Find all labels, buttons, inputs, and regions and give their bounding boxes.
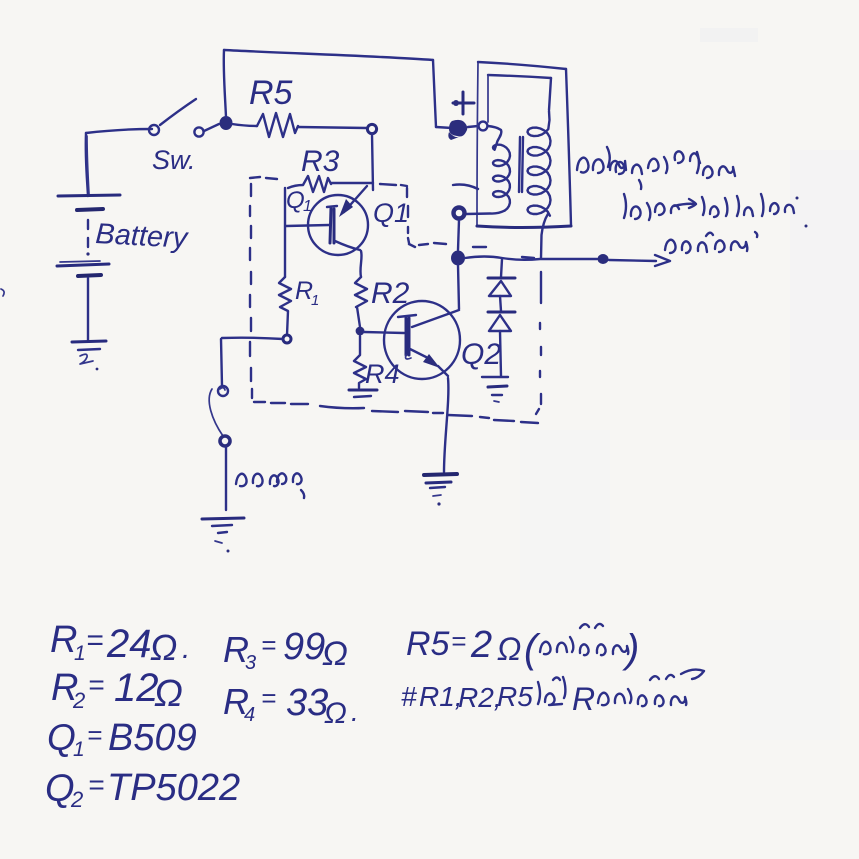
battery internal dashed link [87,220,89,229]
svg-text:TP5022: TP5022 [107,767,240,809]
svg-text:=: = [261,683,276,713]
battery cell plate short 2 [78,275,101,276]
svg-text:Q1: Q1 [373,198,409,228]
switch SW [149,99,233,175]
svg-text:R1,: R1, [419,681,463,712]
svg-text:#: # [401,681,417,712]
battery cell plate long 2 [57,264,109,266]
wire Q2 emitter lead [410,349,426,357]
label thai to spark plug [665,232,757,253]
wire Q2 emitter down [444,378,448,472]
svg-text:2: 2 [72,688,85,713]
wire battery to switch [86,129,152,133]
ground R4 [349,389,377,392]
wire secondary bottom [541,214,548,258]
svg-text:R4: R4 [365,359,400,389]
label value R1 [50,619,190,668]
wire Q1 collector lead [344,186,367,212]
label note R ceramic [401,681,595,717]
svg-text:Q: Q [286,187,305,214]
transistor Q1 base bar [330,208,331,243]
svg-text:3: 3 [245,652,256,674]
diode D2 [488,311,515,314]
svg-text:R3: R3 [301,145,340,178]
points lower contact [220,436,230,446]
svg-text:Ω: Ω [150,627,177,668]
svg-text:Battery: Battery [95,218,190,255]
node Q2 base junction [356,327,365,336]
node output mid [598,254,609,264]
svg-text:R5: R5 [406,625,450,663]
wire D2 down [500,331,501,376]
svg-text:=: = [87,720,102,750]
svg-text:=: = [86,624,104,657]
wire Q2 emitter out [438,366,448,376]
svg-text:12: 12 [114,666,159,710]
resistor R1 [279,277,291,335]
label thai ceramic word2 [598,670,704,707]
svg-text:.: . [351,696,359,727]
svg-text:=: = [261,630,276,660]
svg-text:Sw.: Sw. [152,145,196,175]
svg-text:24: 24 [106,622,152,666]
wire points down [225,447,227,510]
wire battery top lead [86,133,88,196]
svg-text:R2,: R2, [458,682,502,713]
switch contact right [194,127,203,136]
resistor R2 [355,277,367,307]
wire R5-node down to collector junction [372,134,373,190]
wire output to arrow [609,260,656,261]
label thai coil name [577,147,735,189]
transformer core [519,137,520,192]
svg-text:Ω: Ω [324,697,347,730]
resistor R3 [288,176,331,192]
transistor Q1 circle [308,195,368,255]
svg-text:=: = [88,769,104,800]
label thai ceramic in parens [540,624,628,655]
wire plus node to coil [468,126,478,127]
wire R1-node to points [222,338,283,339]
svg-text:=: = [88,669,104,700]
svg-text:R: R [572,681,595,717]
wire R5 to node [298,127,367,128]
arrowhead Q1 collector [339,199,353,217]
wire Q1 emitter down [360,251,361,277]
ground diodes [482,376,508,378]
label value R4 [223,681,359,730]
wire Q1 base lead [286,225,329,226]
wire bypass top [224,50,226,117]
svg-text:1: 1 [303,198,312,215]
switch contact left [149,125,159,135]
label thai pen word [538,677,565,705]
transformer secondary winding [528,111,551,216]
svg-text:Ω: Ω [322,635,348,673]
wire bypass to plus node [436,127,452,128]
dashed box lower [419,243,541,414]
node output junction [451,251,465,266]
svg-text:1: 1 [311,292,319,309]
svg-text:99: 99 [283,626,325,668]
node ring primary-bottom [454,208,465,219]
label value R3 [223,626,348,674]
wire switch to node [204,124,219,131]
diode D1 [488,277,515,280]
node R5 right [367,124,376,133]
label thai high voltage output [624,194,808,228]
wire output line [465,257,597,260]
wire diode stack top [501,259,502,277]
node plus junction [448,120,467,140]
points lever [209,389,223,436]
wire battery bottom lead [87,278,89,340]
transformer T1 ignition coil outer box [477,62,571,228]
svg-text:1: 1 [73,738,85,761]
label value Q1 [47,717,197,761]
label value R2 [51,666,183,715]
wire Q2 collector lead [412,310,459,327]
wire Q1 left vertical [284,188,286,277]
wire output node down to Q2 collector [458,265,459,309]
transformer primary winding [493,136,510,211]
transistor Q2 circle [384,301,460,379]
ground battery [72,341,106,342]
resistor R5 [257,113,298,137]
svg-text:33: 33 [286,682,328,724]
svg-text:Q2: Q2 [461,338,501,371]
battery B1 [57,129,190,370]
svg-text:Q: Q [47,717,76,758]
wire node to Q2 base [364,332,404,333]
transformer inner frame [488,75,551,78]
arrowhead output [655,255,670,266]
switch lever [160,99,196,125]
battery cell plate long 1 [58,195,120,196]
svg-text:R5: R5 [497,681,533,712]
svg-text:B509: B509 [108,717,197,759]
label thai points [236,473,304,498]
dashed box upper [250,177,538,423]
wire D1 to D2 [500,296,501,311]
wire R3 right to junction [331,182,373,184]
svg-text:1: 1 [74,642,86,665]
transistor Q2 base bar [405,318,408,355]
arrowhead Q2 emitter [423,354,440,368]
ground points [202,518,244,519]
label value Q2 [45,767,240,812]
wire ring node down [458,220,459,250]
svg-text:Ω: Ω [497,631,521,667]
node R1 bottom [283,335,291,343]
ground Q2 emitter [424,474,457,475]
svg-text:2: 2 [470,624,492,666]
wire stub at box left [453,185,478,190]
points upper contact [218,386,228,396]
label value R5 [406,624,639,671]
svg-text:4: 4 [244,704,255,726]
svg-text:R5: R5 [249,74,293,112]
svg-text:=: = [451,626,466,656]
plus symbol [462,92,465,114]
wire node to R5 [232,124,257,126]
svg-text:2: 2 [70,787,83,812]
node top-left junction [220,116,233,130]
wire primary bottom to ring node [466,211,505,214]
node coil input [479,122,488,131]
wire Q1 emitter lead [335,241,360,250]
battery cell plate short 1 [77,209,103,210]
svg-text:.: . [182,632,190,665]
svg-text:Ω: Ω [154,673,183,715]
resistor R4 [354,336,366,388]
